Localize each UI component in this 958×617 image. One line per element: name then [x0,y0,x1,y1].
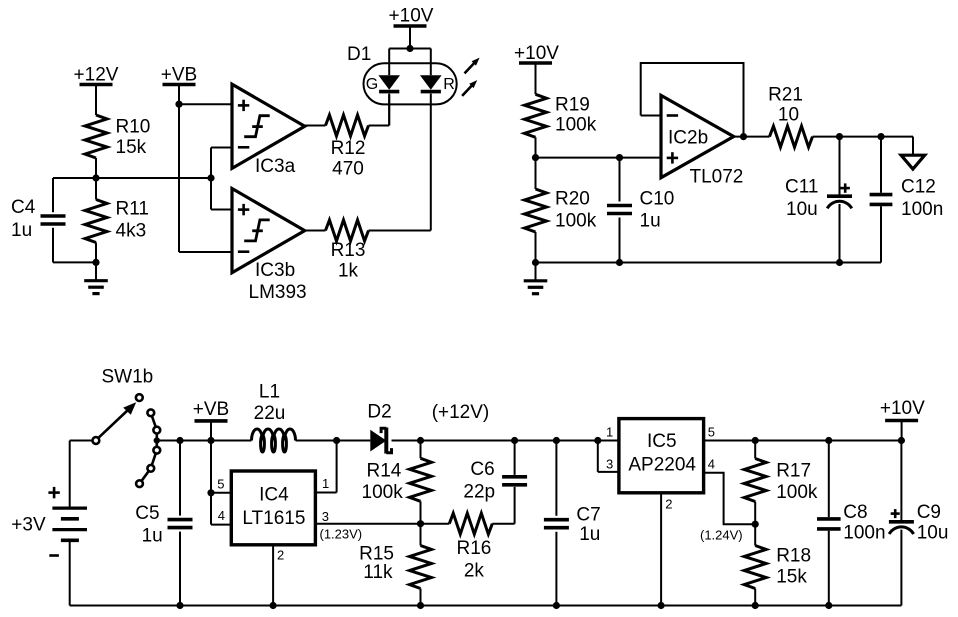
svg-text:C7: C7 [576,505,600,526]
svg-text:+12V: +12V [74,64,119,85]
svg-text:R20: R20 [555,188,590,209]
svg-text:AP2204: AP2204 [628,455,696,476]
svg-text:15k: 15k [116,137,147,158]
svg-text:1: 1 [322,476,329,491]
svg-text:R11: R11 [116,198,149,219]
svg-text:10: 10 [778,105,799,126]
svg-text:4: 4 [708,457,715,472]
svg-text:D1: D1 [347,44,371,65]
svg-text:22p: 22p [463,482,495,503]
svg-text:4: 4 [218,508,225,523]
svg-text:11k: 11k [363,562,393,583]
svg-text:100k: 100k [362,482,404,503]
svg-text:LM393: LM393 [249,282,307,303]
svg-text:R12: R12 [331,138,366,159]
svg-text:2: 2 [665,497,672,512]
svg-text:R17: R17 [776,461,811,482]
svg-text:100k: 100k [555,211,597,232]
svg-text:2k: 2k [464,561,485,582]
svg-text:100k: 100k [555,115,597,136]
svg-text:IC2b: IC2b [668,128,708,149]
svg-text:C8: C8 [843,502,867,523]
svg-text:3: 3 [606,457,613,472]
svg-text:R19: R19 [555,94,590,115]
svg-text:R10: R10 [116,116,151,137]
svg-text:100n: 100n [843,522,885,543]
svg-text:LT1615: LT1615 [242,508,305,529]
svg-text:10u: 10u [786,199,818,220]
svg-text:SW1b: SW1b [102,367,154,388]
svg-text:1u: 1u [640,211,661,232]
svg-text:R: R [443,76,455,93]
svg-text:1u: 1u [11,220,32,241]
svg-text:G: G [366,76,378,93]
svg-text:IC3b: IC3b [255,260,295,281]
svg-text:C10: C10 [640,188,675,209]
svg-text:+10V: +10V [514,43,559,64]
svg-text:C6: C6 [470,459,494,480]
svg-text:+VB: +VB [193,399,229,420]
svg-text:1u: 1u [579,524,600,545]
svg-text:C5: C5 [135,503,159,524]
svg-text:1: 1 [606,425,613,440]
svg-text:IC5: IC5 [647,431,677,452]
svg-text:100n: 100n [901,199,943,220]
svg-text:R21: R21 [768,85,803,106]
svg-text:(+12V): (+12V) [432,402,490,423]
svg-text:C9: C9 [917,502,941,523]
svg-text:4k3: 4k3 [116,220,147,241]
svg-text:470: 470 [332,158,364,179]
svg-text:TL072: TL072 [690,166,744,187]
svg-text:5: 5 [708,425,715,440]
svg-text:10u: 10u [917,522,949,543]
svg-text:R16: R16 [456,538,491,559]
svg-text:22u: 22u [254,403,286,424]
svg-text:IC3a: IC3a [255,156,296,177]
svg-text:+10V: +10V [389,5,434,26]
svg-text:C12: C12 [901,177,936,198]
svg-text:R13: R13 [331,240,366,261]
svg-text:D2: D2 [367,402,391,423]
svg-text:+3V: +3V [11,515,46,536]
svg-text:+VB: +VB [161,64,197,85]
svg-text:(1.23V): (1.23V) [320,527,363,542]
svg-text:C4: C4 [11,197,36,218]
svg-text:3: 3 [322,509,329,524]
svg-text:100k: 100k [776,482,818,503]
svg-text:R14: R14 [367,461,402,482]
svg-text:2: 2 [277,548,284,563]
svg-text:1k: 1k [338,260,359,281]
svg-text:+10V: +10V [880,398,925,419]
svg-text:L1: L1 [259,382,280,403]
svg-text:15k: 15k [776,566,807,587]
svg-text:IC4: IC4 [259,484,289,505]
svg-text:(1.24V): (1.24V) [700,528,743,543]
svg-text:5: 5 [217,477,224,492]
svg-text:1u: 1u [142,526,163,547]
svg-text:R18: R18 [776,546,811,567]
svg-text:C11: C11 [785,177,818,198]
